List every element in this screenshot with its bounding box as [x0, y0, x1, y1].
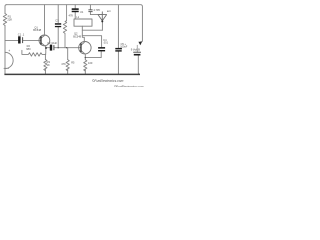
battery B1 negative plate — [134, 54, 141, 56]
resistor R5 wire down — [67, 48, 69, 60]
capacitor C4 plates — [98, 47, 105, 49]
resistor R4 — [63, 5, 66, 48]
trimmer capacitor C7 plates — [88, 8, 92, 11]
transistor Q2 bar — [80, 43, 81, 52]
svg-text:©FunElectronics.com: ©FunElectronics.com — [114, 85, 144, 87]
wire R5 to ground — [67, 69, 69, 74]
resistor R3 — [44, 59, 47, 70]
svg-text:.001: .001 — [103, 42, 108, 45]
wire Q1 emitter down — [44, 48, 46, 60]
wire antenna feed — [101, 21, 103, 31]
antenna ANT — [98, 12, 107, 21]
trimmer C7 wires — [90, 5, 102, 15]
ground bottom rail — [4, 73, 140, 75]
svg-text:.01: .01 — [80, 10, 84, 14]
wire C2 link — [46, 47, 81, 49]
transistor Q1 bar — [40, 36, 41, 44]
wire emitter branch to C4 bottom — [85, 51, 101, 57]
svg-text:4.7PF: 4.7PF — [94, 9, 101, 12]
wire R3 to ground — [44, 69, 46, 74]
svg-text:9 Volt B: 9 Volt B — [131, 48, 140, 52]
svg-text:BC548: BC548 — [33, 28, 41, 32]
resistor R5 — [66, 60, 69, 71]
capacitor C6 plates — [72, 8, 79, 10]
svg-text:680: 680 — [26, 47, 31, 51]
wire Q1 emitter — [41, 43, 46, 48]
wire C1 to Q1 base — [23, 39, 41, 41]
inductor L1 box — [74, 19, 92, 26]
node base junction R4 — [66, 47, 67, 48]
svg-text:C2 10uF: C2 10uF — [47, 41, 57, 45]
capacitor C3 drop wire — [57, 5, 59, 48]
svg-text:100: 100 — [88, 61, 93, 65]
svg-text:+: + — [8, 49, 10, 53]
svg-text:22K: 22K — [7, 18, 12, 22]
switch S1 wire — [140, 40, 142, 43]
node emitter junction Q1 — [45, 47, 47, 49]
wire Q2 emitter — [81, 51, 85, 58]
battery B1 positive plate — [134, 51, 141, 53]
wire Q2 emitter down — [84, 58, 86, 60]
capacitor C1 (electrolytic) — [18, 36, 21, 43]
wire R6 to ground — [84, 69, 86, 74]
svg-text:©FunElectronics.com: ©FunElectronics.com — [92, 79, 124, 83]
wire left rail to mic — [4, 26, 6, 53]
svg-text:100uF: 100uF — [120, 45, 128, 48]
svg-text:ant: ant — [107, 9, 111, 13]
wire base branch Q1 — [5, 39, 18, 41]
wire left rail top — [5, 5, 7, 14]
wire mic to ground — [4, 69, 6, 75]
capacitor C2 (electrolytic) — [50, 45, 52, 51]
svg-text:C1 .1: C1 .1 — [18, 33, 25, 37]
wire switch to battery — [136, 45, 138, 52]
node emitter junction Q2 — [85, 57, 86, 58]
wire collector to C4 — [82, 36, 101, 47]
wire collector to antenna node — [82, 29, 102, 31]
svg-text:C3: C3 — [55, 19, 59, 23]
resistor R2 — [22, 50, 46, 56]
svg-text:BC548: BC548 — [73, 34, 81, 38]
wire Q2 collector — [81, 26, 84, 45]
wire battery to ground — [138, 55, 139, 74]
capacitor C3 plates — [55, 23, 61, 25]
switch S1 contact — [138, 42, 142, 46]
svg-text:47K: 47K — [69, 14, 74, 18]
wire V+ top rail — [7, 5, 143, 42]
microphone MIC — [4, 52, 13, 68]
transistor Q2 — [79, 42, 91, 54]
node base junction C3 — [58, 47, 59, 48]
capacitor C5 plates — [115, 48, 122, 50]
resistor R1 — [3, 14, 6, 26]
resistor R6 — [84, 60, 87, 71]
transistor Q1 — [39, 35, 50, 46]
capacitor C5 wires — [117, 5, 119, 75]
node antenna junction — [101, 20, 103, 22]
svg-text:1K: 1K — [47, 63, 50, 67]
capacitor C6 wires — [74, 5, 76, 19]
wire Q1 collector — [41, 5, 44, 38]
svg-text:47K: 47K — [61, 62, 66, 66]
